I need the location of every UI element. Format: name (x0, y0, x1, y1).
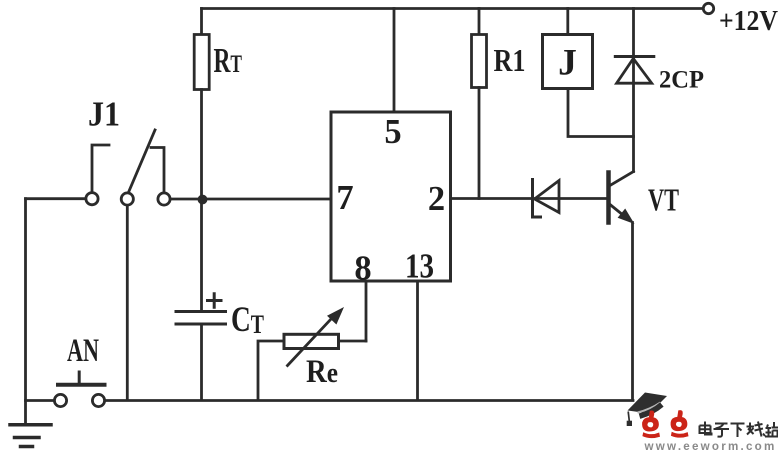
pushbutton AN right terminal (92, 394, 104, 406)
wire RT bottom to CT (200, 90, 203, 311)
wire emitter down (631, 223, 634, 401)
diode VD cathode bar (533, 180, 541, 218)
wire RT top (200, 9, 203, 35)
transistor VT emitter diagonal (610, 205, 626, 218)
op-amp U1 timer block (331, 112, 451, 281)
svg-text:R1: R1 (494, 43, 526, 78)
resistor RT (194, 35, 209, 90)
wire J1 middle down (126, 205, 129, 400)
wire Re right (340, 340, 367, 343)
wire J1 left (26, 197, 86, 200)
node junction dot (198, 195, 208, 205)
svg-text:AN: AN (67, 333, 99, 369)
svg-text:RT: RT (214, 42, 243, 80)
svg-text:J1: J1 (88, 96, 120, 134)
wire CT bottom (200, 324, 203, 400)
capacitor CT top plate (176, 310, 226, 313)
relay coil J (543, 35, 593, 89)
rheostat Re arrow (288, 318, 333, 366)
svg-text:VT: VT (648, 183, 679, 218)
capacitor CT plus sign (208, 294, 222, 307)
wire Re left (258, 341, 283, 400)
wire left vertical (24, 199, 27, 425)
wire J1 left riser hook (92, 145, 109, 192)
relay contact J1 left terminal (86, 193, 98, 205)
wire pin13 (416, 282, 419, 400)
terminal +12V (703, 3, 713, 13)
svg-text:2CP: 2CP (659, 65, 704, 94)
wire top supply rail (202, 7, 703, 10)
wire pin7 from J1 to IC (170, 198, 330, 201)
watermark chongchong red characters (642, 410, 688, 438)
diode 2CP triangle (617, 59, 652, 84)
diode 2CP cathode bar (615, 55, 654, 58)
pushbutton AN actuator (58, 383, 105, 387)
wire J1 right riser hook (151, 148, 164, 193)
transistor VT base bar (606, 173, 611, 223)
wire bottom rail (105, 399, 633, 402)
ground (10, 423, 51, 427)
relay contact J1 middle terminal (121, 193, 133, 205)
svg-text:J: J (558, 43, 577, 84)
relay contact J1 right terminal (158, 193, 170, 205)
pushbutton AN left terminal (54, 394, 66, 406)
wire relay J bottom (568, 89, 634, 137)
capacitor CT bottom plate (176, 323, 226, 326)
watermark text dianzi xiazaizhan (700, 422, 778, 438)
svg-text:CT: CT (231, 299, 264, 339)
watermark cap icon (627, 393, 667, 427)
wire relay J top (566, 9, 569, 34)
wire collector vertical (632, 9, 635, 172)
wire pin5 (393, 9, 396, 112)
wire R1 top (478, 9, 481, 35)
diode VD triangle (535, 181, 560, 213)
transistor VT emitter arrow (618, 209, 635, 225)
transistor VT collector diagonal (610, 172, 634, 186)
wire R1 bottom (478, 88, 481, 199)
svg-text:www.eeworm.com: www.eeworm.com (644, 439, 777, 451)
resistor R1 (472, 35, 487, 88)
wire AN left (26, 399, 55, 402)
svg-text:2: 2 (428, 180, 445, 218)
wire pin8 (365, 282, 368, 341)
wire pin2 to base (452, 197, 608, 200)
svg-text:5: 5 (384, 113, 401, 151)
svg-text:8: 8 (354, 250, 371, 288)
svg-text:7: 7 (336, 179, 353, 217)
svg-text:13: 13 (405, 248, 434, 286)
svg-text:+12V: +12V (719, 6, 778, 37)
rheostat Re body (284, 334, 339, 348)
svg-text:Re: Re (306, 354, 338, 390)
wire J1 switch arm (129, 130, 156, 192)
